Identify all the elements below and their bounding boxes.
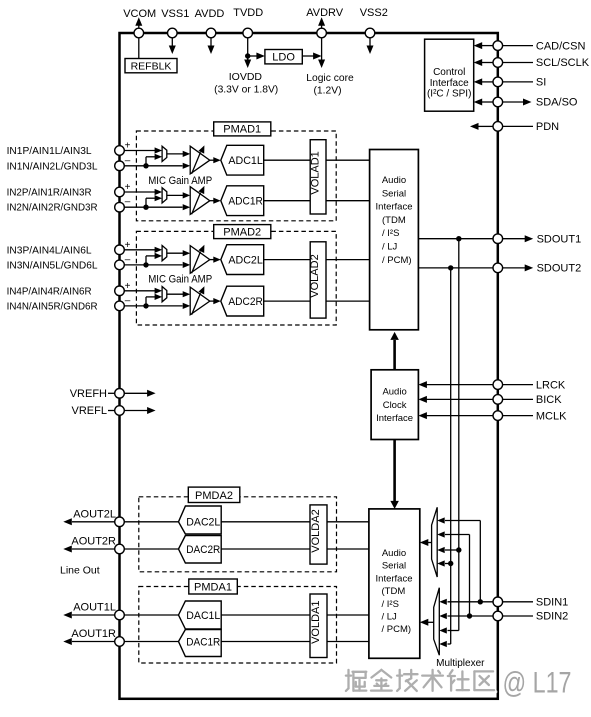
wire SDOUT1 bus to mux lower in3: [439, 627, 459, 633]
svg-text:CAD/CSN: CAD/CSN: [536, 40, 586, 52]
pin IN4P: [7, 281, 155, 298]
svg-text:DAC2L: DAC2L: [186, 517, 220, 529]
svg-text:VREFH: VREFH: [70, 388, 107, 400]
wire VOLDA to DAC1L: [221, 614, 310, 616]
svg-text:Line Out: Line Out: [60, 565, 100, 577]
svg-text:(I²C / SPI): (I²C / SPI): [427, 89, 471, 100]
pin IN3N: [7, 254, 183, 271]
svg-text:DAC1L: DAC1L: [186, 610, 220, 622]
svg-text:IOVDD: IOVDD: [229, 71, 263, 83]
svg-text:IN1P/AIN1L/AIN3L: IN1P/AIN1L/AIN3L: [7, 145, 92, 157]
svg-text:Interface: Interface: [376, 413, 413, 424]
svg-text:IN2N/AIN2R/GND3R: IN2N/AIN2R/GND3R: [7, 202, 98, 214]
wire SDOUT2 bus to mux lower in4: [439, 641, 450, 647]
wire VOLAD to serial interface (ADC1R): [326, 200, 370, 202]
svg-text:ADC1R: ADC1R: [228, 196, 263, 208]
PMDA1 dashed group box: [139, 587, 337, 664]
svg-text:Logic core: Logic core: [306, 73, 354, 84]
mic gain amp A1R: [190, 186, 210, 215]
pin IN4N: [7, 295, 183, 312]
svg-text:IN2P/AIN1R/AIN3R: IN2P/AIN1R/AIN3R: [7, 187, 92, 199]
svg-text:VREFL: VREFL: [72, 405, 107, 417]
DAC block DAC2R: [179, 536, 222, 564]
audio serial interface block (DAC side): [369, 509, 420, 658]
input mux MUX1L: [162, 146, 167, 161]
svg-text:Audio: Audio: [382, 548, 406, 559]
DAC block DAC2L: [179, 506, 222, 534]
pin VCOM: [123, 8, 156, 59]
svg-text:(TDM: (TDM: [382, 586, 406, 597]
wire ADC1R to VOLAD: [264, 200, 311, 202]
svg-text:Audio: Audio: [382, 175, 406, 186]
mic gain amp A2L: [190, 245, 210, 273]
junction dot minus 2R: [143, 303, 148, 308]
ADC block ADC2R: [221, 286, 264, 316]
svg-text:+: +: [125, 240, 131, 251]
svg-text:VOLAD2: VOLAD2: [309, 254, 321, 297]
svg-text:/ PCM): / PCM): [382, 624, 412, 635]
pin SDOUT2: [418, 263, 581, 275]
svg-text:VOLDA2: VOLDA2: [310, 509, 322, 552]
label MIC Gain AMP (PMAD2): [148, 274, 212, 286]
pin SDA/SO: [474, 97, 578, 109]
wire ADC2L to VOLAD: [264, 259, 311, 261]
wire TVDD to LDO: [248, 53, 265, 60]
junction SDOUT2 loopback: [448, 265, 453, 270]
pin VSS1: [161, 8, 189, 54]
svg-text:VCOM: VCOM: [123, 8, 156, 20]
svg-text:/ I²S: / I²S: [382, 599, 399, 610]
wire LDO to AVDRV net: [302, 53, 321, 60]
svg-text:VSS2: VSS2: [360, 7, 388, 19]
svg-text:VSS1: VSS1: [161, 8, 189, 20]
junction TVDD node: [245, 53, 250, 58]
svg-text:Serial: Serial: [382, 188, 406, 199]
wire 2R minus branch to mux: [146, 294, 162, 306]
junction SDOUT1 loopback: [456, 236, 461, 241]
svg-text:TVDD: TVDD: [233, 7, 263, 19]
VOLDA1 block: [310, 594, 327, 658]
pin IN3P: [7, 240, 155, 256]
pin IN2P: [7, 182, 155, 199]
junction dot minus 2L: [143, 262, 148, 267]
wire 1L plus into mux: [155, 147, 163, 153]
svg-text:BICK: BICK: [536, 394, 562, 406]
svg-text:ADC2L: ADC2L: [228, 254, 263, 266]
audio serial interface block (ADC side): [370, 150, 419, 330]
svg-text:Interface: Interface: [430, 78, 469, 89]
wire VOLAD to serial interface (ADC1L): [326, 159, 370, 161]
control interface block U-CTRL: [425, 39, 474, 111]
pin AVDD: [195, 8, 225, 54]
mic gain amp A1L: [190, 145, 210, 174]
svg-text:SDIN2: SDIN2: [536, 611, 568, 623]
svg-text:–: –: [125, 155, 131, 166]
svg-text:MCLK: MCLK: [536, 410, 567, 422]
VOLAD2 block: [309, 242, 326, 318]
svg-text:Control: Control: [433, 67, 465, 78]
pin AOUT1L: [63, 602, 178, 620]
LDO block: [265, 50, 302, 64]
wire 2L plus into mux: [155, 247, 163, 253]
ADC block ADC1R: [221, 186, 264, 216]
wire VOLAD to serial interface (ADC2R): [326, 300, 370, 302]
svg-text:IN3P/AIN4L/AIN6L: IN3P/AIN4L/AIN6L: [7, 244, 92, 256]
svg-text:DAC2R: DAC2R: [186, 544, 220, 556]
pin VREFL: [72, 405, 156, 417]
svg-text:AOUT1L: AOUT1L: [73, 602, 116, 614]
ADC block ADC2L: [221, 245, 264, 275]
svg-text:SI: SI: [536, 77, 546, 89]
svg-text:SDOUT1: SDOUT1: [537, 233, 582, 245]
svg-text:/ PCM): / PCM): [382, 255, 412, 266]
svg-text:/ I²S: / I²S: [382, 228, 399, 239]
wire serial interface to VOLDA (DAC1R): [327, 641, 369, 643]
wire serial interface to VOLDA (DAC2L): [327, 521, 369, 523]
wire 1R plus into mux: [155, 189, 163, 195]
wire 2R plus into mux: [155, 288, 163, 294]
pin AOUT2R: [63, 536, 178, 554]
watermark: [346, 667, 573, 702]
wire 2L minus into amp: [183, 262, 191, 268]
thick arrow clock to ASI bottom: [390, 440, 399, 509]
svg-text:–: –: [125, 197, 131, 208]
pin SI: [474, 77, 547, 89]
wire SDIN2 to mux upper in2: [437, 531, 472, 618]
svg-text:+: +: [125, 141, 131, 152]
wire 1R minus into amp: [183, 204, 191, 210]
svg-text:IN4P/AIN4R/AIN6R: IN4P/AIN4R/AIN6R: [7, 285, 92, 297]
wire ADC2R to VOLAD: [264, 300, 311, 302]
svg-text:+: +: [125, 182, 131, 193]
svg-text:SDOUT2: SDOUT2: [537, 263, 582, 275]
svg-text:AOUT2R: AOUT2R: [71, 536, 116, 548]
svg-text:@ L17: @ L17: [503, 667, 572, 700]
wire 1R minus branch to mux: [146, 195, 162, 207]
svg-text:–: –: [125, 254, 131, 265]
wire mux1L out to amp: [167, 151, 190, 157]
svg-text:AOUT1R: AOUT1R: [71, 628, 116, 640]
pin PDN: [470, 121, 559, 133]
wire VOLDA to DAC2R: [221, 548, 310, 550]
wire SDIN1 to mux upper in1: [437, 517, 483, 604]
wire mux upper output to serial interface: [420, 539, 432, 546]
chip outline: [120, 33, 498, 699]
wire VOLDA to DAC2L: [221, 521, 310, 523]
wire mux2R out to amp: [167, 291, 190, 297]
wire amp to ADC1L: [210, 157, 221, 163]
wire 2L minus branch to mux: [146, 253, 162, 265]
wire SDOUT2 bus to mux upper in4: [437, 560, 453, 566]
input mux MUX1R: [162, 188, 167, 203]
svg-text:SDIN1: SDIN1: [536, 597, 568, 609]
svg-text:(1.2V): (1.2V): [313, 86, 341, 97]
svg-text:–: –: [125, 295, 131, 306]
svg-text:Interface: Interface: [376, 202, 413, 213]
pin AOUT2L: [63, 509, 178, 527]
svg-text:/ LJ: / LJ: [382, 612, 398, 623]
svg-text:PMDA1: PMDA1: [194, 582, 232, 594]
ADC block ADC1L: [221, 145, 264, 175]
wire TVDD to IOVDD arrow: [214, 56, 278, 96]
pin AOUT1R: [63, 628, 178, 646]
PMDA1 label box: [189, 579, 238, 594]
svg-text:(3.3V or 1.8V): (3.3V or 1.8V): [214, 85, 278, 96]
pin SDIN1: [439, 597, 568, 609]
multiplexer MUX upper: [432, 507, 438, 577]
svg-text:SCL/SCLK: SCL/SCLK: [536, 57, 590, 69]
thick arrow clock to ASI top: [390, 332, 399, 370]
svg-text:(TDM: (TDM: [382, 215, 406, 226]
svg-text:PMAD2: PMAD2: [223, 226, 261, 238]
wire amp to ADC1R: [210, 198, 221, 204]
svg-text:/ LJ: / LJ: [382, 242, 398, 253]
svg-text:PDN: PDN: [536, 121, 559, 133]
svg-text:MIC Gain AMP: MIC Gain AMP: [148, 175, 212, 187]
svg-text:AVDRV: AVDRV: [306, 7, 344, 19]
svg-text:IN3N/AIN5L/GND6L: IN3N/AIN5L/GND6L: [7, 259, 98, 271]
svg-text:SDA/SO: SDA/SO: [536, 97, 578, 109]
input mux MUX2L: [162, 246, 167, 261]
svg-text:DAC1R: DAC1R: [186, 636, 220, 648]
svg-text:VOLDA1: VOLDA1: [310, 600, 322, 643]
VOLDA2 block: [310, 505, 327, 564]
svg-text:Serial: Serial: [382, 561, 406, 572]
wire SDOUT1 vertical bus: [458, 239, 460, 631]
pin VREFH: [70, 388, 156, 400]
PMAD1 label box: [214, 122, 271, 136]
PMAD2 label box: [214, 225, 271, 239]
wire SDOUT1 bus to mux upper in3: [437, 547, 461, 553]
pin LRCK: [418, 379, 566, 391]
DAC block DAC1R: [179, 630, 222, 657]
svg-text:PMDA2: PMDA2: [195, 490, 233, 502]
pin TVDD: [233, 7, 263, 60]
wire serial interface to VOLDA (DAC1L): [327, 614, 369, 616]
REFBLK block: [125, 59, 177, 73]
PMAD2 dashed group box: [136, 231, 336, 325]
wire ADC1L to VOLAD: [264, 159, 311, 161]
pin IN1P: [7, 141, 155, 158]
PMAD1 dashed group box: [136, 131, 336, 221]
label Multiplexer: [436, 658, 485, 669]
pin IN1N: [7, 155, 183, 172]
svg-text:+: +: [125, 281, 131, 292]
PMDA2 label box: [188, 487, 240, 502]
wire 1L minus branch to mux: [146, 154, 162, 166]
junction dot minus 1L: [143, 163, 148, 168]
wire 2R minus into amp: [183, 303, 191, 309]
svg-text:LDO: LDO: [272, 51, 295, 63]
pin AVDRV: [306, 7, 354, 97]
junction dot minus 1R: [143, 205, 148, 210]
svg-text:VOLAD1: VOLAD1: [309, 151, 321, 194]
PMDA2 dashed group box: [139, 497, 337, 572]
input mux MUX2R: [162, 287, 167, 302]
svg-text:REFBLK: REFBLK: [131, 60, 172, 72]
svg-text:Clock: Clock: [383, 400, 407, 411]
svg-text:LRCK: LRCK: [536, 379, 566, 391]
svg-text:IN4N/AIN5R/GND6R: IN4N/AIN5R/GND6R: [7, 300, 98, 312]
svg-text:Multiplexer: Multiplexer: [436, 658, 485, 669]
label MIC Gain AMP (PMAD1): [148, 175, 212, 187]
mic gain amp A2R: [190, 286, 210, 315]
svg-text:Interface: Interface: [376, 573, 413, 584]
DAC block DAC1L: [179, 601, 222, 629]
wire 1L minus into amp: [183, 163, 191, 169]
svg-text:AVDD: AVDD: [195, 8, 225, 20]
pin SDIN2: [439, 611, 568, 623]
svg-text:AOUT2L: AOUT2L: [73, 509, 116, 521]
pin MCLK: [418, 410, 567, 422]
wire mux1R out to amp: [167, 192, 190, 198]
wire serial interface to VOLDA (DAC2R): [327, 548, 369, 550]
pin IN2N: [7, 197, 183, 214]
label Line Out: [60, 565, 100, 577]
wire mux2L out to amp: [167, 250, 190, 256]
pin SDOUT1: [418, 233, 581, 245]
pin VSS2: [360, 7, 388, 54]
VOLAD1 block: [309, 140, 326, 214]
pin BICK: [418, 394, 562, 406]
wire mux lower output to serial interface: [420, 619, 434, 626]
svg-text:IN1N/AIN2L/GND3L: IN1N/AIN2L/GND3L: [7, 160, 98, 172]
wire VOLAD to serial interface (ADC2L): [326, 259, 370, 261]
multiplexer MUX lower: [434, 588, 440, 656]
svg-text:Audio: Audio: [382, 387, 406, 398]
svg-text:ADC1L: ADC1L: [228, 155, 263, 167]
audio clock interface block: [371, 370, 418, 440]
wire VOLDA to DAC1R: [221, 641, 310, 643]
wire SDOUT2 vertical bus: [450, 268, 452, 644]
pin CAD/CSN: [474, 40, 586, 52]
svg-text:MIC Gain AMP: MIC Gain AMP: [148, 274, 212, 286]
svg-text:ADC2R: ADC2R: [228, 296, 263, 308]
wire amp to ADC2R: [210, 298, 221, 304]
wire amp to ADC2L: [210, 257, 221, 263]
svg-text:PMAD1: PMAD1: [223, 124, 261, 136]
pin SCL/SCLK: [474, 57, 590, 69]
